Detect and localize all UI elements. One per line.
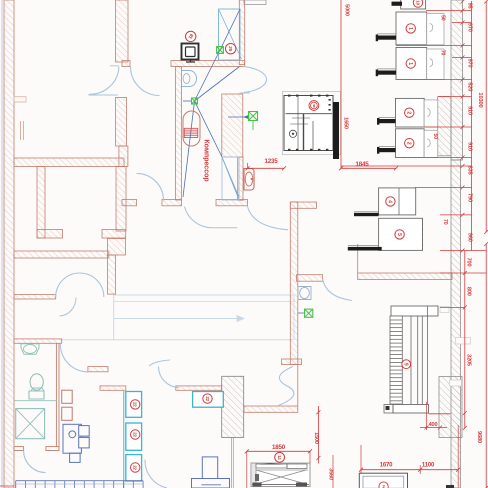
- svg-text:520: 520: [466, 82, 472, 91]
- svg-text:1845: 1845: [356, 161, 370, 168]
- svg-text:22: 22: [133, 402, 138, 407]
- svg-text:1670: 1670: [380, 462, 393, 468]
- svg-text:3560: 3560: [327, 468, 333, 480]
- svg-text:25: 25: [228, 46, 233, 51]
- svg-text:2: 2: [405, 111, 411, 114]
- svg-text:14: 14: [277, 455, 282, 460]
- svg-text:5: 5: [396, 233, 402, 236]
- svg-text:970: 970: [466, 59, 472, 68]
- svg-text:1: 1: [407, 27, 413, 30]
- svg-text:50: 50: [432, 134, 438, 140]
- svg-text:1100: 1100: [422, 462, 435, 468]
- svg-text:700: 700: [466, 258, 472, 267]
- svg-text:Компрессор: Компрессор: [203, 139, 210, 181]
- svg-text:2: 2: [405, 142, 411, 145]
- svg-text:9: 9: [402, 363, 408, 366]
- svg-text:1500: 1500: [313, 432, 319, 444]
- svg-text:10300: 10300: [477, 92, 483, 107]
- svg-text:22: 22: [133, 432, 138, 437]
- svg-text:800: 800: [466, 287, 472, 296]
- svg-text:910: 910: [466, 106, 472, 115]
- svg-text:22: 22: [205, 396, 210, 401]
- svg-text:10: 10: [415, 0, 420, 5]
- svg-text:5000: 5000: [343, 4, 349, 16]
- svg-text:790: 790: [466, 193, 472, 202]
- svg-text:22: 22: [133, 465, 138, 470]
- svg-text:400: 400: [429, 422, 438, 428]
- svg-text:50: 50: [440, 15, 446, 21]
- svg-text:4: 4: [387, 200, 393, 203]
- svg-text:1235: 1235: [265, 158, 279, 165]
- svg-text:1850: 1850: [272, 444, 286, 451]
- svg-text:9680: 9680: [476, 431, 482, 443]
- svg-text:960: 960: [466, 233, 472, 242]
- svg-text:70: 70: [442, 219, 448, 225]
- svg-text:835: 835: [466, 166, 472, 175]
- svg-text:970: 970: [466, 23, 472, 32]
- svg-text:1: 1: [407, 62, 413, 65]
- svg-text:3205: 3205: [466, 354, 472, 366]
- svg-text:70: 70: [440, 50, 446, 56]
- svg-text:1650: 1650: [342, 117, 348, 129]
- svg-text:95: 95: [466, 3, 472, 9]
- svg-text:910: 910: [466, 142, 472, 151]
